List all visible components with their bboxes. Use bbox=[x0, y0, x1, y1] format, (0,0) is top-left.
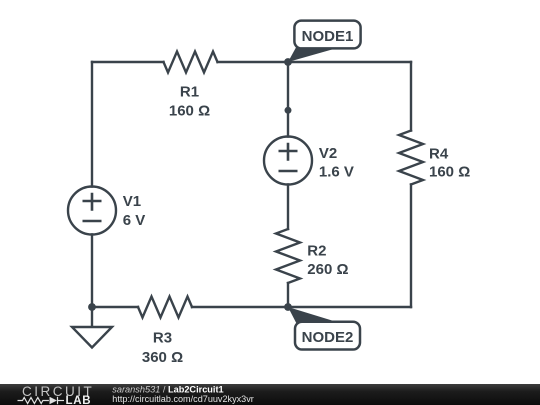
wire V2 to R2 bbox=[287, 185, 289, 230]
node NODE2 flag bbox=[288, 307, 360, 350]
svg-text:saransh531 / Lab2Circuit1: saransh531 / Lab2Circuit1 bbox=[112, 384, 223, 394]
node NODE1 flag bbox=[288, 21, 361, 62]
wire right rail upper bbox=[410, 62, 412, 131]
resistor R4 bbox=[399, 131, 423, 185]
svg-text:R1: R1 bbox=[180, 84, 199, 101]
voltage source V2 bbox=[264, 137, 312, 185]
CircuitLab logo schematic glyph bbox=[18, 397, 65, 404]
svg-text:1.6 V: 1.6 V bbox=[319, 164, 354, 181]
wire bottom-left to R3 bbox=[92, 306, 138, 308]
wire R1 to NODE1 bbox=[218, 61, 289, 63]
resistor R1 bbox=[164, 52, 218, 73]
svg-text:V2: V2 bbox=[319, 145, 337, 162]
svg-text:V1: V1 bbox=[123, 193, 141, 210]
wire NODE1 to top-right corner bbox=[288, 61, 411, 63]
node B junction dot NODE2 bbox=[284, 303, 292, 311]
wire left rail upper bbox=[91, 62, 93, 187]
wire right rail lower bbox=[410, 185, 412, 308]
voltage source V1 bbox=[68, 187, 116, 235]
ground stem bbox=[91, 307, 93, 327]
wire R3 to NODE2 bbox=[192, 306, 288, 308]
svg-text:160 Ω: 160 Ω bbox=[169, 103, 210, 120]
svg-text:NODE1: NODE1 bbox=[302, 28, 354, 45]
svg-text:R2: R2 bbox=[307, 243, 326, 260]
svg-text:R4: R4 bbox=[429, 145, 449, 162]
svg-text:LAB: LAB bbox=[66, 395, 92, 405]
node A junction dot NODE1 bbox=[284, 58, 292, 66]
wire R2 to NODE2 bbox=[287, 283, 289, 307]
resistor R3 bbox=[138, 297, 192, 318]
svg-text:NODE2: NODE2 bbox=[302, 329, 354, 346]
wire bottom-right (NODE2 to right rail) bbox=[288, 306, 411, 308]
svg-text:360 Ω: 360 Ω bbox=[142, 349, 183, 366]
ground bbox=[72, 327, 112, 348]
svg-text:260 Ω: 260 Ω bbox=[307, 261, 348, 278]
svg-text:6 V: 6 V bbox=[123, 212, 146, 229]
svg-text:160 Ω: 160 Ω bbox=[429, 164, 470, 181]
wire V1 to bottom-left junction bbox=[91, 235, 93, 308]
junction dot ground node bbox=[88, 303, 96, 311]
wire top-left (left rail to R1) bbox=[92, 61, 164, 63]
svg-text:http://circuitlab.com/cd7uuv2k: http://circuitlab.com/cd7uuv2kyx3vr bbox=[112, 394, 254, 404]
wire NODE1 down to V2 bbox=[287, 62, 289, 137]
svg-text:R3: R3 bbox=[153, 330, 172, 347]
junction dot V2 top terminal bbox=[285, 107, 292, 114]
resistor R2 bbox=[276, 229, 300, 283]
